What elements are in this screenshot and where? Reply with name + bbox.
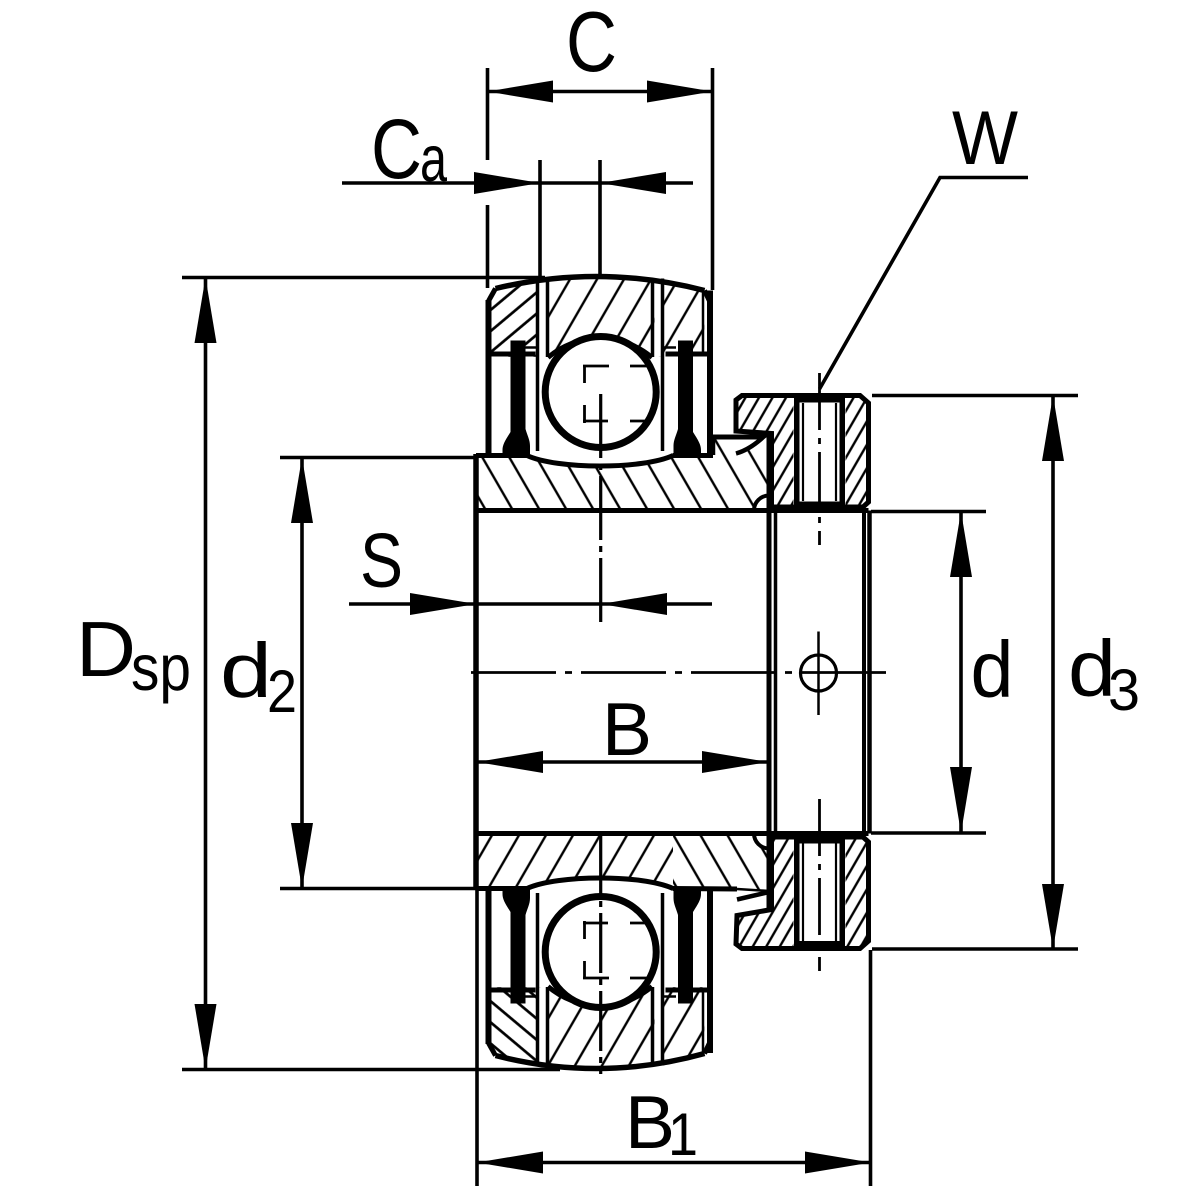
svg-text:W: W bbox=[952, 96, 1018, 181]
svg-text:D: D bbox=[76, 605, 136, 693]
svg-text:a: a bbox=[420, 122, 448, 195]
svg-text:B: B bbox=[602, 687, 652, 771]
svg-text:C: C bbox=[371, 102, 422, 196]
svg-text:2: 2 bbox=[267, 658, 297, 725]
svg-text:d: d bbox=[971, 625, 1014, 714]
svg-text:d: d bbox=[220, 628, 272, 714]
svg-text:3: 3 bbox=[1108, 658, 1140, 723]
svg-text:S: S bbox=[360, 518, 403, 604]
svg-text:C: C bbox=[566, 0, 617, 90]
svg-text:sp: sp bbox=[131, 631, 191, 704]
svg-text:1: 1 bbox=[668, 1101, 698, 1168]
